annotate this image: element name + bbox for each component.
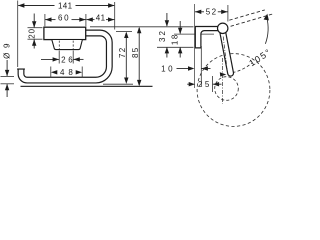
svg-text:41: 41 [96, 13, 106, 22]
vertical centerline through pivot and roll [221, 58, 223, 104]
extension line bar top right [116, 30, 132, 32]
extension line bar right edge [114, 2, 116, 30]
bar open end cap [17, 68, 25, 70]
swing arc arrowhead at raised position [264, 14, 269, 21]
svg-text:18: 18 [171, 33, 180, 45]
arm centerline dash-dot [223, 37, 227, 71]
dimension 32 vertical [158, 13, 169, 58]
wall plate front view [44, 27, 86, 39]
dimension 25 [187, 80, 221, 89]
mounting stem below plate [52, 40, 82, 50]
dimension 20 vertical [27, 14, 36, 49]
svg-text:32: 32 [158, 29, 167, 42]
wall line (side view) [194, 4, 196, 88]
extension line plate top right long [90, 26, 194, 28]
dimension 60 [45, 13, 86, 22]
svg-text:Ø 9: Ø 9 [3, 42, 12, 59]
extension line bar top far-left [1, 75, 15, 77]
raised arm position dashed lines [229, 10, 272, 26]
extension line pivot circle right [227, 5, 229, 22]
swing arc 105 deg upper part [265, 17, 268, 44]
svg-text:26: 26 [61, 56, 75, 65]
dimension 18 vertical [171, 21, 183, 58]
dimension 26 [41, 56, 84, 65]
pivot circle [218, 23, 228, 33]
svg-text:20: 20 [27, 28, 36, 39]
extension line plate bottom left [28, 38, 43, 40]
svg-text:141: 141 [58, 1, 73, 10]
svg-text:52: 52 [206, 8, 218, 17]
dimension 72 vertical [118, 32, 128, 84]
svg-text:48: 48 [60, 68, 77, 77]
extension line pivot bottom [174, 33, 214, 35]
swing arc 105 deg dashed lower part [227, 63, 251, 73]
extension line plate left [44, 14, 46, 26]
hidden screw hole left [58, 41, 60, 50]
dimension diameter 9 vertical [3, 42, 12, 97]
extension line bar bottom far-left [1, 83, 15, 85]
dimension 41 [86, 13, 114, 22]
extension line stem hole right [72, 51, 74, 64]
roll outer circle dashed arc [197, 54, 270, 127]
svg-text:60: 60 [58, 13, 70, 22]
dimension 85 vertical [131, 27, 141, 87]
dimension 10 [161, 64, 210, 73]
dimension 52 [195, 8, 228, 17]
dimension 48 [51, 67, 82, 78]
extension line bar bottom right [103, 83, 133, 85]
svg-text:25: 25 [198, 80, 212, 89]
roll bar (J-shaped tube, front view) [21, 33, 109, 80]
roll core circle dashed [215, 77, 239, 101]
extension line roll front clearance [212, 76, 214, 92]
dimension 141 [18, 1, 115, 10]
svg-text:72: 72 [118, 47, 127, 58]
hanging arm side view [220, 32, 233, 76]
extension line bar left end [17, 1, 19, 68]
extension line plate top left [28, 27, 43, 29]
ground reference line [21, 85, 153, 87]
swing arc arrowhead at arm [220, 72, 227, 76]
extension line holder front face [200, 46, 202, 86]
wall plate profile side view [195, 27, 217, 48]
svg-text:10: 10 [161, 64, 175, 73]
extension line stem hole left [58, 51, 60, 64]
extension line plate bottom side view [157, 46, 194, 48]
hidden screw hole right [72, 41, 74, 50]
extension line plate right [85, 14, 87, 26]
svg-text:85: 85 [131, 47, 140, 58]
